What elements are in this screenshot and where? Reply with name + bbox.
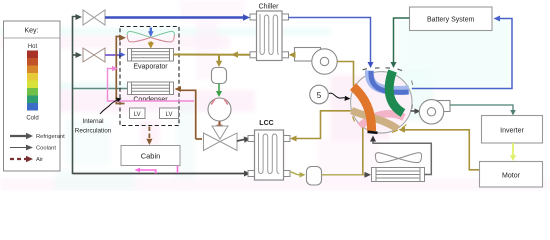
wire valve2 to evaporator (purple) [105,54,120,56]
radiator [372,168,425,182]
wire pump1 to chiller (gold) [293,54,295,56]
svg-text:Hot: Hot [28,44,38,50]
label circle 5 [310,85,329,104]
cabin box [121,146,180,166]
wire chiller to valve top-left (blue) [289,18,371,64]
dashed enclosure [120,27,179,126]
svg-text:LV: LV [134,112,141,118]
port ticks [353,68,413,133]
HVAC fan blade left [127,31,151,37]
wire LCC out to tank (olive) [290,172,301,175]
compressor [208,98,231,121]
key refrigerant arrow [10,135,27,137]
channel orange [353,87,372,132]
internal recirculation pointer squiggle [100,100,118,114]
wire battery to valve top-right (green) [394,18,410,63]
accumulator tank [212,68,227,84]
wire valve1 to chiller (blue refrigerant) [105,16,244,18]
motor box [480,162,543,188]
coolant tank [307,167,322,186]
evaporator [128,49,174,62]
svg-text:Key:: Key: [24,28,38,35]
radiator fan [375,153,421,163]
air arrow to cabin (dashed brown) [148,127,150,141]
svg-text:Coolant: Coolant [36,146,56,152]
channel tan [352,111,398,130]
pink cabin air line lower [177,166,179,174]
valve V2 [83,48,105,62]
svg-text:Cabin: Cabin [141,152,161,161]
wire motor to valve bottom-right (gold) [403,130,480,170]
svg-text:Air: Air [36,157,43,163]
wire radiator to valve bottom (gray loop) [373,140,431,175]
chiller coil [260,14,279,55]
wire valve3 to LCC (dark) [237,139,245,141]
wire condenser outlet to valves trunk [73,88,128,90]
svg-text:LCC: LCC [259,120,273,127]
svg-text:LV: LV [166,112,173,118]
wire inverter to motor (lime) [512,143,514,157]
battery system box [410,7,493,31]
wire valve left port to LCC (gold) [295,111,351,139]
label 5 pointer squiggle [329,93,347,98]
wire pump2 to inverter (teal) [450,105,513,112]
svg-text:Chiller: Chiller [259,4,280,11]
key separator line [4,37,61,39]
LV box 2 [160,108,179,119]
wire compressor to valve3 (red-brown) [219,122,221,127]
svg-text:Inverter: Inverter [500,128,524,135]
wire valve bottom-left down to radiator (gold) [362,128,364,175]
pump P1 [295,48,338,75]
svg-text:Evaporator: Evaporator [133,64,168,71]
chiller body [257,11,283,61]
air recirculation duct (brown) [116,37,124,104]
wire accumulator to compressor (green) [218,84,220,93]
air arrow fan to evaporator (gold) [150,42,153,45]
key air arrow [10,158,27,160]
bottom port marker [368,132,378,133]
background artifact blobs [0,0,550,191]
LCC coil [259,133,280,174]
svg-text:Battery System: Battery System [427,17,475,24]
key box [4,21,61,171]
svg-text:Motor: Motor [502,173,521,180]
channel blue [369,71,409,91]
LV box 1 [130,108,146,119]
wire tee down to accumulator [218,55,220,63]
channel pink [360,114,404,127]
svg-text:Internal: Internal [82,118,103,125]
wire valve right to battery (blue) [412,19,512,89]
LCC ports [248,136,290,177]
valve V3 (3-way) [204,126,238,151]
key coolant arrow [10,147,27,149]
wire condenser inlet (brown) from valve3 trunk [180,90,196,139]
wire tank to radiator (olive) [322,174,367,176]
wire bottom dark line to LCC [73,173,246,175]
svg-text:Recirculation: Recirculation [75,128,112,135]
HVAC fan blade right [151,31,175,37]
svg-text:5: 5 [317,91,322,100]
valve V1 [83,10,105,25]
pink cabin air line upper [108,69,195,102]
wire evaporator out / chiller out (gold refrigerant) [174,54,253,56]
svg-text:Condenser: Condenser [133,97,168,104]
wire branch to valve 2 [73,54,78,56]
inverter box [482,116,543,144]
svg-text:Refrigerant: Refrigerant [36,134,65,140]
condenser [128,82,174,95]
wire valve right-mid to pump2 (dark) [411,110,417,112]
air arrow cold in (blue, into fan) [150,28,152,33]
key gradient bar [27,51,38,111]
channel green [389,71,403,113]
pump P2 [419,100,450,124]
svg-text:Cold: Cold [26,116,38,122]
chiller ports [250,14,289,58]
wire valve UL port to pump1 (gold) [337,62,353,87]
rotary valve body [351,72,412,133]
LCC body [255,130,284,180]
